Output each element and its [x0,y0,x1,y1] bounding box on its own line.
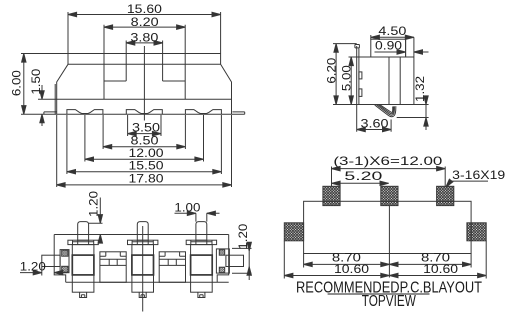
dimension 0.90 [375,39,429,57]
dimension 5.00 vertical [349,57,357,105]
dimension 8.70 right [389,254,471,268]
dimension 1.32 vertical [424,96,428,131]
plan view flange 2 [128,240,158,244]
front view slider slots [104,54,185,100]
plan view center line unit 2 [142,226,144,312]
svg-text:4.50: 4.50 [378,24,406,38]
dimension 1.20 left [20,267,67,276]
plan view contact window 2 [159,252,185,282]
pcb pad top 2 [381,186,398,205]
pcb pad top 1 [323,186,340,205]
dimension 12.00 [85,115,204,162]
svg-text:8.20: 8.20 [131,15,159,29]
plan view right side bracket [216,249,229,273]
svg-text:(3-1)X6=12.00: (3-1)X6=12.00 [333,154,442,168]
dimension 8.20 [104,25,185,54]
svg-text:1.20: 1.20 [236,223,250,249]
plan view knob 2 [137,222,148,241]
svg-text:3.50: 3.50 [132,120,160,134]
svg-text:0.90: 0.90 [375,39,402,53]
plan view left side bracket [60,250,69,273]
plan view right side pin [226,255,244,266]
side view J-bend pin [375,105,429,118]
dimension 8.50 [103,115,185,149]
plan view knob 3 [196,222,207,241]
front view body outline [21,54,232,115]
dimension 10.60 left [284,241,389,279]
terminal base plate [21,112,245,114]
dimension 1.20 top-left vertical [89,198,103,244]
plan view flange 3 [186,240,216,244]
svg-text:1.50: 1.50 [29,68,43,94]
svg-text:6.20: 6.20 [324,57,338,83]
dimension 10.60 right [389,241,486,279]
svg-text:1.20: 1.20 [87,191,101,217]
terminal bumps group 1 [67,110,103,115]
side view body top line [357,56,414,58]
svg-text:5.00: 5.00 [340,65,354,91]
front view center line [143,46,145,121]
plan view dimension texts [20,191,250,274]
dimension 6.00 vertical [22,54,26,115]
terminal bumps group 3 [185,110,221,115]
dimension 3.60 [357,105,391,132]
dimension 17.80 [57,115,232,187]
svg-text:3.60: 3.60 [361,116,389,130]
plan view flange 1 [68,240,98,244]
dimension 15.60 [68,12,221,54]
svg-text:3-16X19: 3-16X19 [452,168,505,182]
side view body bottom line [357,104,429,106]
dimension 3.80 [126,41,162,54]
front view dimension texts [10,2,164,185]
svg-text:10.60: 10.60 [423,262,458,276]
dimension (3-1)X6=12.00 [332,166,446,186]
dimension 1.00 top [175,211,220,222]
side view knob cap [371,39,406,57]
dimension 3.50 [128,115,161,136]
pcb layout dimension texts [332,154,506,276]
leader 3-16X19 [444,179,488,188]
svg-text:10.60: 10.60 [334,262,369,276]
side view left mounting plate [355,45,362,105]
svg-text:TOPVIEW: TOPVIEW [362,293,416,310]
side view dimension texts [324,24,427,130]
plan view switch unit 2 [132,245,154,298]
pcb pad right [467,223,486,241]
plan view body outline with corner notches [54,235,229,283]
dimension 8.70 left [304,254,390,268]
plan view left side pin [42,255,60,266]
svg-text:5.20: 5.20 [344,169,383,183]
dimension 4.50 [371,35,414,40]
dimension 1.20 right vertical [232,242,252,280]
svg-text:6.00: 6.00 [10,70,24,96]
dimension 1.50 vertical [38,85,57,126]
svg-text:15.50: 15.50 [129,158,164,172]
svg-text:17.80: 17.80 [129,172,164,186]
pcb layout board outline [304,201,472,253]
caption RECOMMENDED P.C.B LAYOUT [296,280,482,297]
svg-text:1.20: 1.20 [20,259,46,273]
dimension 5.20 [332,181,389,185]
side view right edge [413,37,415,104]
svg-text:1.32: 1.32 [413,76,427,102]
plan view contact window 1 [100,252,126,282]
terminal bumps group 2 [126,110,162,115]
pcb pad top 3 [437,186,454,205]
side view actuator stem [389,57,400,105]
plan view switch unit 1 [72,245,94,298]
pcb pad left [284,223,303,241]
plan view switch unit 3 [191,245,213,298]
svg-text:3.80: 3.80 [130,31,158,45]
dimension 6.20 vertical [333,44,357,105]
plan view knob 1 [78,222,89,241]
svg-text:1.00: 1.00 [174,201,200,215]
dimension 15.50 [67,115,222,174]
pcb layout center line [388,206,390,278]
